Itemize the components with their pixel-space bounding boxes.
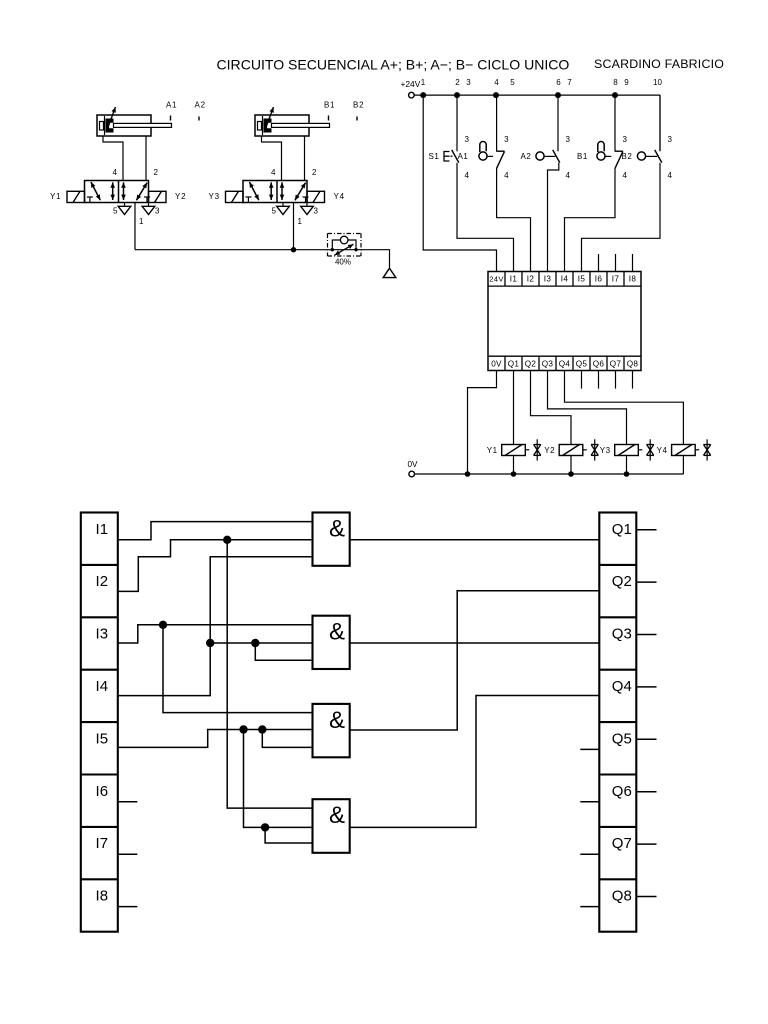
svg-text:I2: I2 xyxy=(96,573,109,590)
svg-text:0V: 0V xyxy=(408,460,419,469)
svg-text:Q1: Q1 xyxy=(508,360,520,369)
svg-text:4: 4 xyxy=(504,171,509,180)
svg-text:I4: I4 xyxy=(561,275,569,284)
svg-text:8: 8 xyxy=(613,78,618,87)
svg-text:5: 5 xyxy=(272,207,277,216)
svg-text:2: 2 xyxy=(455,78,460,87)
svg-text:Q2: Q2 xyxy=(525,360,537,369)
svg-text:5: 5 xyxy=(510,78,515,87)
svg-text:+24V: +24V xyxy=(401,79,421,89)
svg-text:6: 6 xyxy=(556,78,561,87)
svg-text:SCARDINO FABRICIO: SCARDINO FABRICIO xyxy=(594,57,724,71)
svg-text:Y1: Y1 xyxy=(487,446,498,455)
svg-text:Q8: Q8 xyxy=(627,360,639,369)
svg-text:CIRCUITO SECUENCIAL A+; B+; A−: CIRCUITO SECUENCIAL A+; B+; A−; B− CICLO… xyxy=(217,57,570,73)
svg-text:A2: A2 xyxy=(195,101,206,110)
svg-text:2: 2 xyxy=(312,168,317,177)
svg-text:Y1: Y1 xyxy=(50,192,61,201)
svg-text:S1: S1 xyxy=(429,152,440,161)
svg-text:Q3: Q3 xyxy=(542,360,554,369)
svg-text:A1: A1 xyxy=(166,101,177,110)
svg-text:B2: B2 xyxy=(622,152,633,161)
svg-text:I3: I3 xyxy=(96,626,109,643)
svg-text:&: & xyxy=(329,516,345,543)
svg-text:I4: I4 xyxy=(96,678,109,695)
svg-text:4: 4 xyxy=(623,171,628,180)
svg-text:4: 4 xyxy=(113,168,118,177)
svg-text:3: 3 xyxy=(504,135,509,144)
svg-text:4: 4 xyxy=(494,78,499,87)
svg-text:Q6: Q6 xyxy=(593,360,605,369)
svg-text:Q7: Q7 xyxy=(612,835,632,852)
svg-text:Q1: Q1 xyxy=(612,521,632,538)
svg-text:Q7: Q7 xyxy=(610,360,622,369)
svg-text:B2: B2 xyxy=(353,101,364,110)
svg-text:I8: I8 xyxy=(96,888,109,905)
svg-text:B1: B1 xyxy=(324,101,335,110)
svg-text:Y2: Y2 xyxy=(544,446,555,455)
svg-text:24V: 24V xyxy=(489,275,504,284)
svg-text:I2: I2 xyxy=(527,275,535,284)
svg-text:3: 3 xyxy=(566,135,571,144)
svg-text:Y4: Y4 xyxy=(657,446,668,455)
svg-text:9: 9 xyxy=(624,78,629,87)
svg-text:I3: I3 xyxy=(544,275,552,284)
svg-text:4: 4 xyxy=(566,171,571,180)
svg-text:3: 3 xyxy=(314,207,319,216)
svg-text:Q3: Q3 xyxy=(612,626,632,643)
svg-text:I1: I1 xyxy=(510,275,518,284)
svg-text:Y4: Y4 xyxy=(334,192,345,201)
svg-text:Q6: Q6 xyxy=(612,783,632,800)
svg-text:I7: I7 xyxy=(96,835,109,852)
svg-text:I6: I6 xyxy=(595,275,603,284)
svg-text:I7: I7 xyxy=(612,275,620,284)
svg-text:Y2: Y2 xyxy=(175,192,186,201)
svg-text:&: & xyxy=(329,707,345,734)
svg-text:4: 4 xyxy=(465,171,470,180)
svg-text:I1: I1 xyxy=(96,521,109,538)
svg-text:B1: B1 xyxy=(577,152,588,161)
svg-text:1: 1 xyxy=(298,217,303,226)
svg-text:4: 4 xyxy=(668,171,673,180)
svg-text:A2: A2 xyxy=(521,152,532,161)
svg-text:7: 7 xyxy=(567,78,572,87)
svg-text:3: 3 xyxy=(623,135,628,144)
svg-text:10: 10 xyxy=(653,78,662,87)
svg-text:3: 3 xyxy=(465,135,470,144)
svg-text:A1: A1 xyxy=(458,152,469,161)
svg-text:3: 3 xyxy=(668,135,673,144)
svg-text:Q5: Q5 xyxy=(576,360,588,369)
svg-text:3: 3 xyxy=(155,207,160,216)
svg-text:3: 3 xyxy=(466,78,471,87)
svg-text:2: 2 xyxy=(154,168,159,177)
svg-text:I5: I5 xyxy=(578,275,586,284)
svg-text:&: & xyxy=(329,619,345,646)
svg-text:Q5: Q5 xyxy=(612,730,632,747)
svg-text:1: 1 xyxy=(421,78,426,87)
svg-text:0V: 0V xyxy=(491,360,502,369)
svg-text:Q4: Q4 xyxy=(612,678,632,695)
svg-text:Y3: Y3 xyxy=(600,446,611,455)
svg-text:I6: I6 xyxy=(96,783,109,800)
svg-text:40%: 40% xyxy=(335,258,351,267)
svg-text:Y3: Y3 xyxy=(209,192,220,201)
svg-text:4: 4 xyxy=(271,168,276,177)
svg-text:I8: I8 xyxy=(629,275,637,284)
svg-text:I5: I5 xyxy=(96,730,109,747)
svg-text:Q2: Q2 xyxy=(612,573,632,590)
svg-text:5: 5 xyxy=(113,207,118,216)
svg-text:Q8: Q8 xyxy=(612,888,632,905)
svg-text:1: 1 xyxy=(139,217,144,226)
svg-text:&: & xyxy=(329,802,345,829)
svg-text:Q4: Q4 xyxy=(559,360,571,369)
